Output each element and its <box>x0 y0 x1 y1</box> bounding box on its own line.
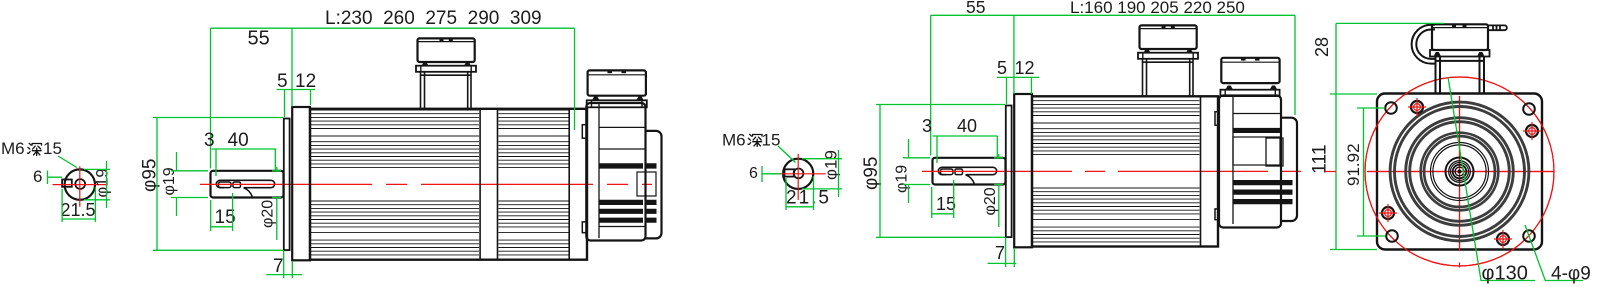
rear cap vent bars <box>599 163 643 223</box>
spigot lip <box>284 119 290 251</box>
connector1 collar <box>416 66 476 72</box>
shaft body <box>933 158 1006 185</box>
dim 111 <box>1309 144 1331 174</box>
svg-text:φ19: φ19 <box>822 150 841 180</box>
red bolt circle inner part <box>1365 77 1554 266</box>
leader M6 <box>778 146 796 163</box>
svg-text:φ20: φ20 <box>982 187 999 215</box>
cross hole T <box>1408 98 1426 116</box>
connectorB cap <box>1221 58 1279 83</box>
svg-text:12: 12 <box>1015 58 1035 78</box>
svg-text:40: 40 <box>957 116 977 136</box>
svg-text:15: 15 <box>936 194 956 214</box>
centerline tick <box>1325 172 1460 268</box>
svg-text:L:230 260 275 290 309: L:230 260 275 290 309 <box>325 8 542 29</box>
body ring outer <box>1390 102 1529 241</box>
svg-text:7: 7 <box>273 256 284 277</box>
connectorB base <box>1220 90 1279 96</box>
shaft end circle <box>783 159 813 189</box>
hub circles <box>1446 158 1474 186</box>
bail wire handle <box>1412 25 1435 64</box>
svg-text:3: 3 <box>922 116 932 136</box>
body section lines <box>480 109 569 260</box>
svg-text:φ19: φ19 <box>94 168 112 197</box>
cross hole B <box>1494 230 1512 248</box>
connector1 stem <box>421 72 472 109</box>
connectorA cap <box>1140 25 1197 49</box>
FRONT-VIEW <box>1309 23 1591 284</box>
cross hole R <box>1523 122 1541 140</box>
svg-text:7: 7 <box>995 243 1005 263</box>
keyway runout curve <box>244 188 253 198</box>
rear cap tabs <box>582 125 586 139</box>
rear cap vent bars <box>1233 180 1280 204</box>
key pieces <box>941 169 954 175</box>
connector2 base <box>587 100 647 107</box>
encoder cover <box>1281 118 1297 221</box>
dim 91.92 <box>1344 143 1363 186</box>
connector pin nub <box>1488 25 1507 30</box>
spigot double circle <box>1431 143 1489 201</box>
red centerlines inner <box>1367 96 1554 251</box>
rear cap inner lines <box>599 104 646 238</box>
connector1 cap ticks <box>440 39 444 42</box>
svg-text:φ130: φ130 <box>1482 263 1528 285</box>
rear cap inner lines <box>1233 96 1280 224</box>
red crosshair <box>771 154 825 200</box>
RIGHT-END-VIEW <box>722 131 842 211</box>
rear window <box>637 172 656 196</box>
svg-text:6: 6 <box>749 165 758 182</box>
keyway slot <box>938 167 996 174</box>
rear vent bar top <box>1233 128 1280 133</box>
spigot lip <box>1006 106 1012 238</box>
dim φ95 <box>861 157 882 190</box>
dim φ19 vertical right <box>94 168 112 197</box>
svg-text:15: 15 <box>762 131 781 150</box>
svg-text:28: 28 <box>1312 37 1332 57</box>
leader 4-φ9 <box>1525 225 1583 281</box>
keyway runout curve <box>966 175 975 185</box>
body ribs <box>1033 97 1200 242</box>
keyway slot <box>216 180 274 187</box>
svg-text:5: 5 <box>997 58 1007 78</box>
svg-text:3: 3 <box>204 130 215 151</box>
connector1 feet <box>422 62 472 66</box>
body ring mid <box>1406 118 1514 226</box>
body ribs section2 <box>499 110 569 255</box>
LEFT-END-VIEW <box>1 139 112 222</box>
connectorA stem <box>1143 59 1194 97</box>
dim φ20 <box>982 187 999 215</box>
body ring inner <box>1421 133 1499 211</box>
svg-text:21.5: 21.5 <box>61 200 96 220</box>
RIGHT-MOTOR <box>861 0 1309 267</box>
motor body outline <box>1032 96 1218 246</box>
flange square <box>1377 94 1542 250</box>
encoder cover <box>646 131 662 239</box>
svg-text:M6: M6 <box>1 139 25 158</box>
rear cap <box>586 103 645 241</box>
corner hole TR <box>1523 103 1535 115</box>
dim φ19 shaft <box>161 167 178 195</box>
leader M6 <box>58 156 77 168</box>
svg-text:55: 55 <box>248 28 270 50</box>
motor body outline <box>310 109 587 260</box>
dim top L <box>211 28 575 168</box>
svg-text:4-φ9: 4-φ9 <box>1551 264 1591 285</box>
dim 28 <box>1312 37 1332 57</box>
shaft centerline red <box>200 183 652 185</box>
corner hole TL <box>1385 102 1397 114</box>
leader φ130 <box>1448 77 1535 281</box>
connectorA collar <box>1138 53 1198 59</box>
body ribs section1 <box>311 110 479 255</box>
svg-text:φ95: φ95 <box>861 157 882 190</box>
shaft centerline red <box>922 170 1309 172</box>
dim φ20 <box>260 200 277 228</box>
rear window <box>1233 137 1280 165</box>
cross hole L <box>1379 204 1397 222</box>
keyway flat <box>62 180 72 187</box>
svg-text:M6: M6 <box>722 131 746 150</box>
corner hole BR <box>1523 230 1535 242</box>
flange block <box>1014 94 1032 247</box>
LEFT-MOTOR <box>140 8 662 278</box>
svg-text:55: 55 <box>966 0 985 17</box>
top connector collar <box>1430 50 1490 57</box>
svg-text:40: 40 <box>228 130 249 151</box>
corner hole BL <box>1386 230 1398 242</box>
svg-text:L:160 190 205 220 250: L:160 190 205 220 250 <box>1070 0 1245 17</box>
red centerlines <box>1367 96 1554 251</box>
connectorA feet <box>1144 49 1194 53</box>
M6 tap hole <box>75 179 85 189</box>
red bolt circle φ130 <box>1365 77 1554 266</box>
keyway flat <box>785 169 795 176</box>
svg-text:21.5: 21.5 <box>786 188 831 209</box>
dim φ95 <box>140 159 161 192</box>
svg-text:91.92: 91.92 <box>1344 143 1363 186</box>
key pieces <box>219 182 232 188</box>
svg-text:15: 15 <box>43 139 62 158</box>
body section line <box>1200 96 1202 246</box>
rear cap tabs <box>1215 112 1219 126</box>
dim φ19 shaft <box>894 165 911 193</box>
rear cap <box>1219 96 1281 228</box>
top connector cap <box>1432 24 1488 50</box>
flange block <box>292 107 310 260</box>
shaft body <box>211 171 284 198</box>
svg-text:φ20: φ20 <box>260 200 277 228</box>
shaft end circle <box>65 169 95 199</box>
M6 tap hole <box>794 169 804 179</box>
dim top L <box>931 15 1295 155</box>
svg-text:6: 6 <box>33 167 42 186</box>
red crosshair <box>53 166 107 207</box>
connector2 cap <box>588 70 646 95</box>
shaft center dot <box>1458 170 1462 174</box>
svg-text:111: 111 <box>1309 144 1331 174</box>
connector1 cap <box>418 38 475 62</box>
top connector stem <box>1436 57 1485 94</box>
svg-text:φ19: φ19 <box>161 167 178 195</box>
dim φ19 vertical <box>822 150 841 180</box>
